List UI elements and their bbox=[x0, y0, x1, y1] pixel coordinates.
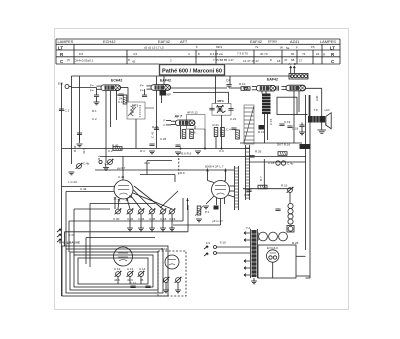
svg-text:C.4: C.4 bbox=[226, 128, 231, 132]
svg-text:T.9: T.9 bbox=[314, 108, 318, 112]
svg-text:AZ41: AZ41 bbox=[290, 39, 299, 44]
svg-text:17: 17 bbox=[299, 59, 303, 63]
svg-text:μF C.47: μF C.47 bbox=[212, 219, 223, 223]
svg-text:W: W bbox=[280, 46, 283, 50]
svg-text:47: 47 bbox=[284, 58, 288, 62]
svg-text:ECH42: ECH42 bbox=[111, 79, 122, 83]
svg-text:EAF42: EAF42 bbox=[160, 79, 171, 83]
svg-text:5008 4 2F L.7: 5008 4 2F L.7 bbox=[205, 165, 224, 169]
svg-text:R.26: R.26 bbox=[255, 150, 262, 154]
svg-text:C.41: C.41 bbox=[151, 131, 155, 138]
svg-text:R.28: R.28 bbox=[292, 241, 299, 245]
svg-text:C.13: C.13 bbox=[127, 267, 134, 271]
svg-text:30 70: 30 70 bbox=[260, 52, 268, 56]
svg-text:R.23: R.23 bbox=[152, 125, 159, 129]
svg-text:C.2: C.2 bbox=[92, 117, 97, 121]
svg-text:4,5: 4,5 bbox=[133, 52, 138, 56]
svg-text:R.45: R.45 bbox=[112, 144, 119, 148]
svg-text:C.18: C.18 bbox=[268, 161, 275, 165]
svg-text:43.6: 43.6 bbox=[144, 161, 150, 165]
svg-text:C.17: C.17 bbox=[118, 100, 125, 104]
svg-text:250v: 250v bbox=[300, 145, 308, 149]
svg-text:F5: F5 bbox=[311, 45, 315, 49]
svg-text:AF7: AF7 bbox=[180, 39, 187, 44]
svg-text:R.4: R.4 bbox=[140, 149, 145, 153]
svg-text:MF3: MF3 bbox=[218, 99, 224, 103]
svg-text:MF3: MF3 bbox=[216, 45, 222, 49]
svg-text:C.1: C.1 bbox=[65, 109, 70, 113]
svg-text:R.6: R.6 bbox=[180, 171, 185, 175]
svg-text:H.P.: H.P. bbox=[325, 108, 331, 112]
svg-text:LAMPES: LAMPES bbox=[58, 39, 74, 44]
svg-text:F=: F= bbox=[140, 84, 144, 88]
svg-text:R.1: R.1 bbox=[97, 155, 101, 160]
svg-text:A30: A30 bbox=[315, 95, 319, 101]
svg-text:C.26: C.26 bbox=[160, 137, 167, 141]
svg-text:EF369: EF369 bbox=[268, 40, 277, 44]
svg-text:7a: 7a bbox=[255, 45, 259, 49]
svg-text:A: A bbox=[289, 62, 291, 66]
svg-text:C.4b: C.4b bbox=[83, 162, 90, 166]
svg-text:C.19: C.19 bbox=[284, 120, 291, 124]
svg-text:C.15: C.15 bbox=[269, 118, 273, 125]
svg-text:F: F bbox=[196, 45, 198, 49]
svg-text:P.1: P.1 bbox=[205, 210, 209, 214]
svg-text:14 47 15 47: 14 47 15 47 bbox=[243, 59, 259, 63]
svg-text:EAF42: EAF42 bbox=[267, 78, 278, 82]
svg-text:DKT R.16: DKT R.16 bbox=[277, 143, 290, 147]
svg-text:LT: LT bbox=[58, 45, 63, 50]
svg-text:C.43: C.43 bbox=[118, 175, 125, 179]
svg-text:ECH42: ECH42 bbox=[103, 39, 116, 44]
svg-text:LAMPES: LAMPES bbox=[320, 39, 336, 44]
svg-text:LT: LT bbox=[330, 45, 335, 50]
svg-text:EAF42: EAF42 bbox=[158, 39, 170, 44]
svg-text:R.41 ⏚BAGUE: R.41 ⏚BAGUE bbox=[59, 240, 80, 245]
svg-text:(5: (5 bbox=[67, 58, 70, 62]
svg-text:R.21: R.21 bbox=[213, 123, 220, 127]
svg-text:R.10: R.10 bbox=[239, 82, 246, 86]
svg-text:F: F bbox=[164, 123, 166, 127]
svg-text:5a: 5a bbox=[286, 46, 290, 50]
svg-text:C.30: C.30 bbox=[113, 217, 120, 221]
svg-text:C.2: C.2 bbox=[108, 149, 113, 153]
svg-text:R.7: R.7 bbox=[259, 176, 263, 181]
svg-text:R.13: R.13 bbox=[258, 130, 265, 134]
svg-text:24: 24 bbox=[316, 52, 320, 56]
svg-text:R.15: R.15 bbox=[281, 184, 288, 188]
svg-text:EAF42: EAF42 bbox=[250, 39, 262, 44]
svg-text:44.6: 44.6 bbox=[114, 278, 120, 282]
svg-text:C.14: C.14 bbox=[139, 267, 146, 271]
svg-text:F.9: F.9 bbox=[206, 241, 210, 245]
svg-text:T.A: T.A bbox=[246, 226, 250, 230]
svg-text:AF 7: AF 7 bbox=[174, 115, 184, 119]
svg-text:E/B: E/B bbox=[58, 82, 63, 86]
svg-text:8 4 85 2a: 8 4 85 2a bbox=[210, 52, 223, 56]
svg-text:L.C.23: L.C.23 bbox=[68, 180, 77, 184]
svg-text:18: 18 bbox=[277, 59, 281, 63]
svg-text:C4: C4 bbox=[226, 79, 231, 83]
svg-text:μμ 4.7: μμ 4.7 bbox=[117, 166, 126, 170]
svg-text:F=: F= bbox=[140, 89, 144, 93]
svg-text:4F R.12: 4F R.12 bbox=[187, 111, 198, 115]
svg-text:F: F bbox=[296, 46, 298, 50]
svg-text:MF1: MF1 bbox=[132, 104, 138, 108]
svg-text:7 55 88 85 4 47: 7 55 88 85 4 47 bbox=[213, 58, 234, 62]
svg-text:C.21: C.21 bbox=[230, 117, 237, 121]
svg-text:F=: F= bbox=[90, 89, 94, 93]
svg-text:F.10: F.10 bbox=[220, 241, 226, 245]
svg-text:CH4×0.05±0.1: CH4×0.05±0.1 bbox=[74, 59, 94, 63]
svg-text:C.9: C.9 bbox=[219, 149, 224, 153]
svg-text:C.33: C.33 bbox=[68, 233, 75, 237]
svg-text:R.19: R.19 bbox=[161, 247, 168, 251]
svg-text:EY3-6.0: EY3-6.0 bbox=[267, 246, 278, 250]
svg-text:7 9 8 75: 7 9 8 75 bbox=[237, 52, 248, 56]
svg-text:F=: F= bbox=[90, 84, 94, 88]
svg-text:43.6 R.6: 43.6 R.6 bbox=[180, 152, 192, 156]
svg-text:F: F bbox=[164, 119, 166, 123]
svg-text:8.5: 8.5 bbox=[79, 52, 84, 56]
svg-text:Pathé 600 / Marconi 60: Pathé 600 / Marconi 60 bbox=[162, 68, 222, 74]
svg-text:C.43: C.43 bbox=[80, 187, 87, 191]
svg-text:45: 45 bbox=[140, 278, 144, 282]
svg-text:R.1: R.1 bbox=[92, 109, 97, 113]
svg-text:84: 84 bbox=[291, 52, 295, 56]
svg-text:C.18: C.18 bbox=[292, 127, 299, 131]
svg-text:36F: 36F bbox=[166, 93, 171, 97]
svg-text:c5 c5 L5 L7 L5: c5 c5 L5 L7 L5 bbox=[144, 46, 164, 50]
svg-text:C.12: C.12 bbox=[114, 267, 121, 271]
svg-text:42: 42 bbox=[132, 60, 136, 64]
svg-text:74: 74 bbox=[302, 52, 306, 56]
